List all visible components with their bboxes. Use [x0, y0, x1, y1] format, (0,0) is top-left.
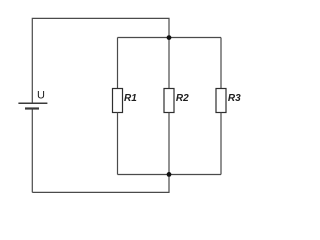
wire [31, 109, 33, 193]
wire [118, 174, 222, 176]
resistor R3 [216, 38, 226, 175]
wire [32, 175, 169, 193]
svg-text:R3: R3 [228, 93, 241, 104]
resistor R2 [164, 38, 174, 175]
node A [167, 35, 172, 40]
wire [118, 37, 222, 39]
svg-text:R1: R1 [124, 93, 137, 104]
svg-text:U: U [37, 90, 45, 102]
svg-text:R2: R2 [176, 93, 189, 104]
battery U [18, 103, 47, 108]
wire [32, 18, 169, 103]
resistor R1 [113, 38, 123, 175]
node B [167, 172, 172, 177]
